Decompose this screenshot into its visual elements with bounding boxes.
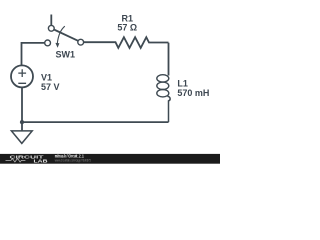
- svg-text:L1: L1: [177, 79, 188, 89]
- svg-text:www.circuitlab.com/capp/7bd067: www.circuitlab.com/capp/7bd0675: [55, 158, 91, 163]
- svg-text:57 V: 57 V: [41, 82, 60, 92]
- svg-text:SW1: SW1: [56, 50, 76, 60]
- svg-text:57 Ω: 57 Ω: [117, 23, 137, 33]
- svg-text:570 mH: 570 mH: [177, 88, 209, 98]
- svg-text:LAB: LAB: [34, 158, 49, 164]
